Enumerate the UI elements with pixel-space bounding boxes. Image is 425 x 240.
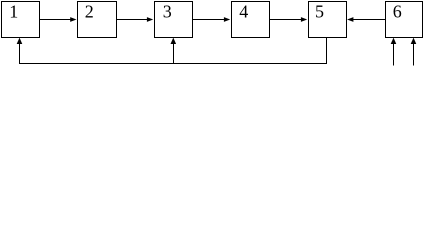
wire arrow 6 to 5 <box>347 17 385 22</box>
wire: feedback rise into block 1 <box>19 42 21 64</box>
wire: feedback drop from block 5 bottom <box>326 38 328 64</box>
svg-text:2: 2 <box>85 2 94 22</box>
wire: input line A into block 6 bottom <box>393 42 395 66</box>
block 6 <box>386 2 423 38</box>
wire: input line B into block 6 bottom <box>413 42 415 66</box>
svg-text:1: 1 <box>9 2 18 22</box>
svg-text:4: 4 <box>239 2 248 22</box>
svg-text:3: 3 <box>163 2 172 22</box>
block 4 <box>232 2 270 38</box>
arrowhead into block 1 bottom <box>17 38 23 44</box>
svg-text:5: 5 <box>315 2 324 22</box>
block 2 <box>78 2 117 38</box>
wire arrow 4 to 5 <box>270 17 307 22</box>
arrowhead into block 3 bottom <box>171 38 177 44</box>
wire arrow 2 to 3 <box>117 17 153 22</box>
wire: feedback rise into block 3 <box>173 42 175 64</box>
block 1 <box>2 2 40 38</box>
wire: long bottom feedback line <box>19 63 327 65</box>
block 5 <box>309 2 347 38</box>
svg-text:6: 6 <box>393 2 402 22</box>
arrowhead A into block 6 <box>391 38 397 44</box>
block 3 <box>155 2 193 38</box>
wire arrow 3 to 4 <box>193 17 230 22</box>
wire arrow 1 to 2 <box>40 17 77 22</box>
arrowhead B into block 6 <box>411 38 417 44</box>
